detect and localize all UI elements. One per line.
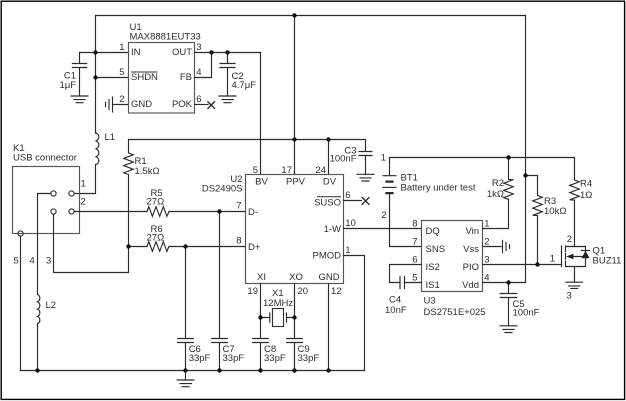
svg-text:27Ω: 27Ω (147, 197, 165, 208)
ground below C3 (357, 174, 374, 181)
resistor R5 (147, 207, 169, 217)
pin circle K1-b (51, 209, 56, 214)
svg-text:10nF: 10nF (385, 305, 407, 316)
wire R3 jog (526, 176, 538, 196)
svg-text:4.7μF: 4.7μF (232, 80, 257, 91)
svg-text:6: 6 (345, 190, 350, 201)
svg-text:8: 8 (412, 219, 417, 230)
svg-text:L2: L2 (46, 300, 57, 311)
resistor R3 (533, 196, 543, 265)
resistor R1 (124, 140, 134, 247)
svg-text:10kΩ: 10kΩ (544, 206, 566, 217)
connector K1 box (13, 167, 80, 234)
svg-text:1Ω: 1Ω (580, 190, 592, 201)
svg-text:33pF: 33pF (264, 353, 286, 364)
capacitor C5 (500, 283, 516, 326)
capacitor C4 (400, 277, 422, 289)
svg-text:GND: GND (131, 99, 152, 110)
svg-text:R4: R4 (580, 179, 592, 190)
svg-text:5: 5 (412, 273, 417, 284)
wire D- line (74, 211, 245, 213)
svg-text:3: 3 (484, 255, 489, 266)
capacitor C3 (359, 140, 372, 175)
svg-text:1-W: 1-W (324, 224, 341, 235)
wire PPV drop (294, 16, 296, 175)
wire IS2 loop (390, 265, 422, 283)
wire XO down / capacitor C9 (287, 284, 303, 371)
ground on bus (177, 371, 194, 387)
svg-text:SNS: SNS (426, 244, 446, 255)
wire Vss stub (483, 246, 502, 248)
svg-text:1: 1 (484, 219, 489, 230)
svg-text:2: 2 (484, 237, 489, 248)
svg-text:POK: POK (172, 99, 193, 110)
regulator U1 MAX8881EUT33 box (129, 43, 195, 114)
svg-text:Vss: Vss (463, 244, 479, 255)
ground below Q1 (566, 282, 583, 288)
svg-text:2: 2 (567, 234, 572, 245)
svg-text:5: 5 (253, 165, 258, 176)
wire K1 pin5 down (20, 236, 22, 370)
svg-text:17: 17 (281, 165, 292, 176)
svg-text:USB connector: USB connector (13, 153, 77, 164)
transistor Q1 BUZ11 (562, 246, 586, 282)
pin circle K1-a (51, 191, 56, 196)
svg-text:4: 4 (484, 273, 489, 284)
svg-text:33pF: 33pF (298, 353, 320, 364)
svg-text:6: 6 (412, 255, 417, 266)
svg-text:100nF: 100nF (513, 308, 540, 319)
svg-text:1: 1 (345, 245, 350, 256)
svg-text:2: 2 (381, 210, 386, 221)
svg-text:1: 1 (81, 179, 86, 190)
svg-text:2: 2 (81, 197, 86, 208)
svg-text:D-: D- (248, 207, 258, 218)
wire FB to OUT (195, 53, 212, 78)
svg-text:IS2: IS2 (426, 262, 440, 273)
svg-text:PPV: PPV (286, 176, 306, 187)
svg-text:27Ω: 27Ω (147, 233, 165, 244)
svg-text:U3: U3 (424, 296, 436, 307)
svg-text:33pF: 33pF (189, 353, 211, 364)
svg-text:GND: GND (318, 272, 339, 283)
transistor Q1 arrow (566, 254, 573, 260)
svg-text:4: 4 (30, 256, 35, 267)
svg-text:IS1: IS1 (426, 280, 440, 291)
svg-text:3: 3 (46, 256, 51, 267)
ground at U1 GND pin (rotated) (106, 97, 129, 112)
svg-text:IN: IN (131, 47, 141, 58)
no-connect X at SUSO (362, 198, 369, 205)
inductor L1 (96, 133, 99, 165)
wire SUSO stub (344, 200, 362, 202)
SUSO overline (317, 196, 341, 198)
svg-text:D+: D+ (248, 242, 261, 253)
wire right drop from top rail (525, 16, 527, 283)
wire K1 pin4 left and down (38, 194, 51, 371)
svg-text:10: 10 (345, 218, 356, 229)
capacitor C2 (220, 53, 235, 97)
svg-text:Vdd: Vdd (462, 280, 479, 291)
svg-text:C4: C4 (389, 295, 401, 306)
svg-text:5: 5 (14, 256, 19, 267)
wire SHDN line (96, 77, 129, 79)
IC U2 DS2490S box (246, 175, 344, 284)
svg-text:1μF: 1μF (59, 80, 76, 91)
svg-text:SHDN: SHDN (131, 72, 158, 83)
pin circle K1-2 (69, 209, 74, 214)
resistor R2 (504, 158, 514, 200)
wire C3 rail (129, 139, 366, 141)
wire top rail (96, 15, 526, 17)
battery BT1 (383, 158, 422, 247)
capacitor C1 (72, 53, 86, 97)
svg-text:1: 1 (550, 254, 555, 265)
crystal X1 leads (261, 313, 295, 322)
pin circle K1-5 (18, 231, 23, 236)
ground below C1 (71, 96, 88, 103)
svg-text:BUZ11: BUZ11 (593, 256, 622, 267)
svg-text:3: 3 (567, 291, 572, 302)
capacitor C7 (212, 212, 228, 371)
svg-text:5: 5 (119, 67, 124, 78)
wire PIO to gate (483, 264, 562, 266)
svg-text:100nF: 100nF (330, 154, 357, 165)
svg-text:OUT: OUT (172, 47, 192, 58)
svg-text:4: 4 (196, 67, 201, 78)
svg-text:19: 19 (247, 286, 258, 297)
wire XI down / capacitor C8 (253, 284, 269, 371)
crystal X1 body (273, 309, 284, 327)
svg-text:Vin: Vin (465, 226, 479, 237)
svg-text:BV: BV (255, 176, 268, 187)
ground below C2 (219, 96, 236, 103)
svg-text:12MHz: 12MHz (263, 298, 293, 309)
svg-text:20: 20 (298, 286, 309, 297)
svg-text:MAX8881EUT33: MAX8881EUT33 (130, 32, 201, 43)
svg-text:1: 1 (119, 42, 124, 53)
svg-text:12: 12 (331, 286, 342, 297)
wire OUT line (195, 52, 261, 54)
wire ground bus (21, 370, 365, 372)
wire IN line (80, 52, 129, 54)
wire K1 pin3 down right up (54, 214, 129, 272)
svg-text:1: 1 (381, 153, 386, 164)
svg-text:DS2490S: DS2490S (202, 184, 243, 195)
wire GND12 down (328, 284, 330, 371)
wire OUT down to BV (260, 53, 262, 175)
svg-text:24: 24 (315, 165, 326, 176)
ground at Vss (rotated) (503, 241, 510, 253)
wire DV drop (328, 140, 330, 175)
wire D+ line (129, 246, 246, 248)
svg-text:XO: XO (289, 272, 303, 283)
battery BT1 short plates (387, 182, 393, 194)
svg-text:DS2751E+025: DS2751E+025 (424, 307, 486, 318)
svg-text:1.5kΩ: 1.5kΩ (135, 166, 160, 177)
svg-text:7: 7 (412, 237, 417, 248)
svg-text:FB: FB (180, 72, 192, 83)
resistor R4 (570, 158, 580, 247)
svg-text:7: 7 (236, 201, 241, 212)
svg-text:DQ: DQ (426, 226, 440, 237)
svg-text:DV: DV (323, 176, 337, 187)
svg-text:6: 6 (196, 94, 201, 105)
svg-text:L1: L1 (105, 132, 116, 143)
transistor Q1 body diode (581, 251, 589, 258)
svg-text:PMOD: PMOD (313, 251, 342, 262)
inductor L2 (38, 295, 40, 324)
wire left drop to IN/SHDN/L1 (74, 16, 95, 194)
wire POK stub (195, 104, 209, 106)
SHDN overline (131, 71, 158, 73)
svg-text:8: 8 (236, 236, 241, 247)
capacitor C6 (178, 247, 194, 371)
svg-text:1kΩ: 1kΩ (487, 189, 504, 200)
svg-text:33pF: 33pF (223, 353, 245, 364)
resistor R6 (147, 242, 169, 252)
pin circle K1-1 (69, 191, 74, 196)
transistor Q1 diode cathode bar (581, 250, 589, 252)
svg-text:SUSO: SUSO (314, 198, 341, 209)
wire Vin to R2 (483, 199, 509, 228)
ground below C5 (500, 326, 517, 333)
wire Vdd line (483, 282, 526, 284)
no-connect X at POK (208, 102, 215, 109)
wire 1-W to DQ (344, 228, 422, 230)
wire PMOD down to bus (344, 256, 365, 371)
svg-text:2: 2 (119, 94, 124, 105)
svg-text:3: 3 (196, 42, 201, 53)
IC U3 DS2751E+025 box (422, 221, 483, 292)
wire battery rail (390, 157, 575, 159)
svg-text:XI: XI (257, 272, 266, 283)
svg-text:R2: R2 (492, 178, 504, 189)
svg-text:Battery under test: Battery under test (401, 183, 476, 194)
svg-text:PIO: PIO (463, 262, 479, 273)
